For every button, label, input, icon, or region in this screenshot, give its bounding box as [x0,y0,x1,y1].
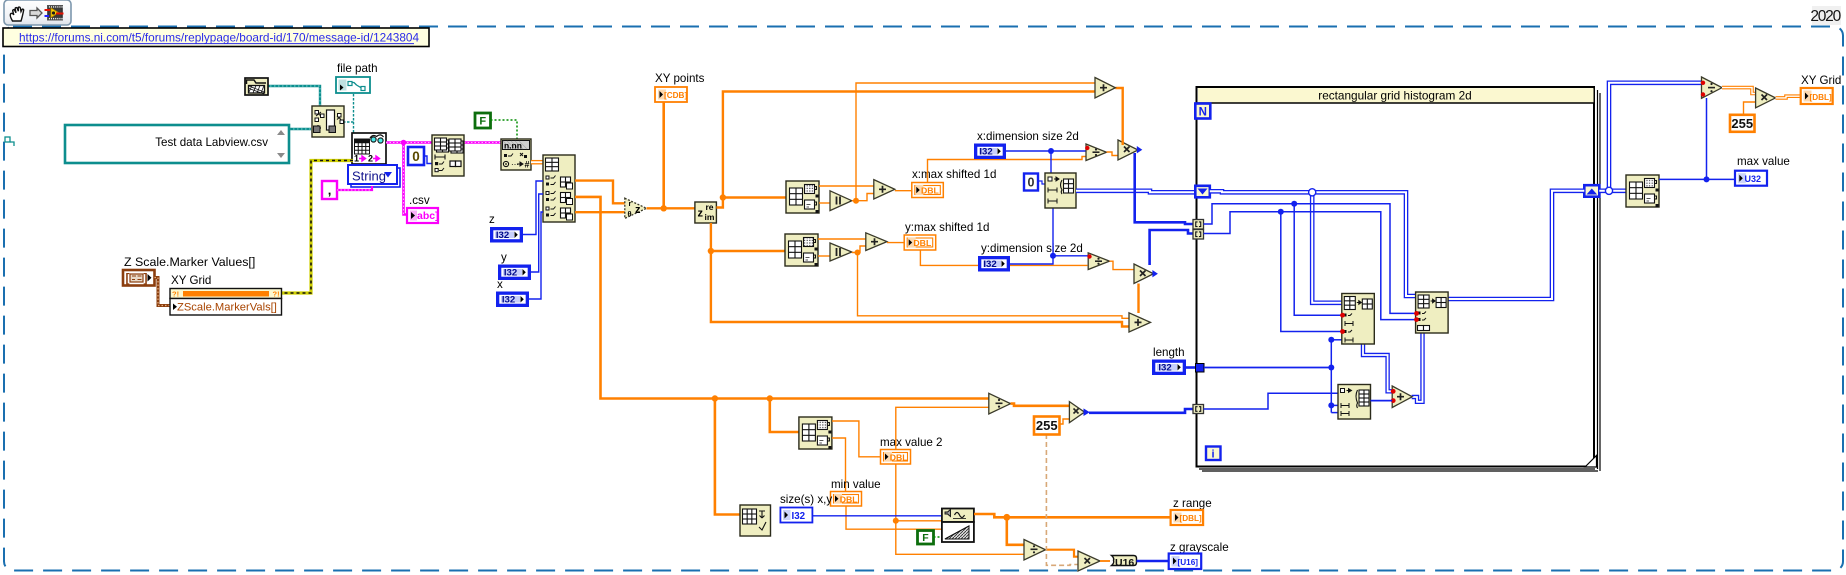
tunnel1 wire to icons A and B (index x) [1204,204,1416,314]
plus out up into icon B bottom [1412,333,1423,402]
length vertical distribution [1330,340,1332,413]
icon B: replace array subset 2 [1416,292,1449,333]
svg-text:I32: I32 [983,259,996,270]
icon A: replace array subset [1342,294,1375,345]
svg-text:file path: file path [337,62,378,75]
multiply (right) triangle [1756,88,1776,108]
wire: 255 to multiply [1060,419,1070,424]
svg-text:I32: I32 [502,295,515,306]
F false constant (top) [475,113,491,128]
main 2d wire: shift register to icon B with branch [1210,191,1416,296]
svg-text:?!: ?! [273,290,280,299]
complex to re/im node [695,202,717,223]
svg-text:DBL: DBL [890,452,909,462]
length tunnel (solid square) [1196,364,1205,373]
wire: junction down to array max-min 2 [770,399,799,433]
svg-text:rectangular grid histogram 2d: rectangular grid histogram 2d [1318,89,1471,103]
wire: x min out to abs [819,202,830,204]
pink branch down to .csv constant [404,143,408,215]
svg-text:i: i [1211,449,1214,461]
folder constant icon [245,78,268,95]
wire: polar out to junction, complex-to-reim [647,207,695,209]
size(s) I32 indicator [780,508,812,523]
wire: abs y to add with junction down [852,246,866,253]
svg-text:abc]: abc] [417,210,439,222]
wire: top add output down into multiply x [1115,88,1122,145]
svg-text:XY points: XY points [655,72,705,85]
build path icon [312,106,344,137]
min value DBL indicator [831,492,862,507]
length wire inside loop [1204,367,1331,369]
matrix size icon [740,505,771,536]
svg-text:0: 0 [1028,176,1035,190]
fract/exp string to number icon [501,139,531,170]
svg-text:I32: I32 [496,230,509,241]
wire: divide y to multiply y [1110,261,1135,269]
svg-text:θ: θ [628,210,632,219]
svg-text:U16: U16 [1115,557,1134,569]
wire: min value down to ramp bottom input [846,506,942,529]
wire: junction down to matrix size [715,399,740,515]
right shift register [1584,185,1599,197]
top add triangle [1095,78,1115,99]
wire: re junction to x array max-min [723,196,786,198]
comma string constant [322,181,337,199]
wire: im output down (1d array) [711,223,1129,327]
wire: multiply to U16 conversion [1100,560,1110,562]
2020 version tag [1812,6,1841,25]
index array icon [543,155,575,222]
wire: y:max terminal down to y:dimension control and divide [920,250,1087,265]
file path indicator [336,77,370,93]
z range DBL array indicator [1171,510,1204,525]
svg-text:[U16]: [U16] [1178,558,1199,567]
2d blue wire: initialize array to loop shift register [1076,191,1195,193]
cluster array constant [123,270,155,286]
svg-text:[CDB]: [CDB] [664,91,687,100]
svg-text:size(s) x,y: size(s) x,y [780,493,832,506]
multiply y triangle [1134,264,1154,284]
2d wire out of loop to the right with junction [1599,189,1626,194]
y:max shifted 1d DBL indicator [904,235,936,250]
max value U32 indicator [1735,171,1767,186]
svg-text:x: x [497,278,503,291]
add y triangle [866,233,887,251]
initialize array icon [1045,173,1076,208]
tunnel3 wire to icon C [1204,393,1339,409]
svg-text:z: z [635,204,641,216]
wire: x:max terminal up to divide [928,157,1087,183]
array max-min 2 icon [799,417,832,449]
path constant: Test data Labview.csv [65,125,289,163]
svg-text:ZScale.MarkerVals[]: ZScale.MarkerVals[] [177,302,277,314]
svg-text:Z Scale.Marker Values[]: Z Scale.Marker Values[] [124,255,255,269]
svg-text:z range: z range [1173,497,1212,510]
green dotted wire to ramp node [934,536,942,538]
index array outputs: row1 to polar-to-complex [575,181,625,204]
wire: 0 to initialize array [1038,181,1045,184]
svg-text:[: [ [126,271,130,285]
retain-values arrow icon [30,8,42,18]
wire: max out to max value 2 [832,421,881,457]
wire: length to loop tunnel [1186,366,1195,369]
wire: y control to index array [531,194,543,272]
svg-text:n.nn: n.nn [504,141,522,151]
svg-text:DBL: DBL [840,494,859,504]
svg-text:im: im [705,212,715,222]
divide (XY/255) triangle [989,393,1011,414]
long 1d wire junction dots [712,395,718,401]
wire: add x to DBL [895,190,912,192]
svg-text:DBL: DBL [913,238,932,248]
svg-text:max value: max value [1737,155,1790,168]
icon A bottom out to plus [1363,344,1392,391]
wire: divide to multiply (thick) [1011,404,1070,406]
svg-text:x:dimension size 2d: x:dimension size 2d [977,130,1079,143]
svg-text:,: , [328,183,332,198]
y:dimension I32 control [978,256,1010,272]
pink wire across to string-to-number [464,141,501,144]
svg-text:z: z [489,213,495,226]
wire: ramp output to z range junction [974,514,1171,517]
svg-text:?!: ?! [172,290,179,299]
XY Grid DBL array indicator [1801,88,1833,104]
svg-text:2020: 2020 [1810,8,1841,25]
wire: divide to multiply (thin double orange) [1722,88,1756,94]
row3 straight to polar-to-complex theta [575,211,625,213]
svg-text:.csv: .csv [409,194,430,207]
svg-text:re: re [706,202,714,212]
wire: max out to junction, max value and divide [1659,178,1735,180]
wire: folder to build path (teal) [266,86,320,107]
N loop count box [1195,104,1210,119]
icon C: index array (interior) [1338,385,1371,420]
y array max-min icon [785,234,818,266]
icon C out to plus [1371,400,1393,402]
svg-text:z grayscale: z grayscale [1170,541,1229,554]
wire: size to intensity graph node (blue) [812,515,942,517]
U16 conversion bubble [1112,556,1137,570]
svg-text:[DBL]: [DBL] [1180,514,1203,523]
hand tool icon [10,7,23,21]
svg-text:min value: min value [831,478,881,491]
tunnel2 wire to icons A and B (index y) [1204,212,1416,320]
wire: U16 to z grayscale (blue) [1137,560,1169,563]
bottom-right add triangle (x+y) [1129,313,1151,332]
tunnel [] 1 [1193,220,1204,230]
quick scale / ramp icon [942,509,974,543]
wire: max value 2 up to divide (thin) [896,407,989,449]
bottom divide triangle [1024,540,1046,561]
multiply y output diamond and blue wire up to tunnel2 [1152,270,1158,277]
divide x-row triangle [1086,144,1107,161]
path constant corner glyph [5,137,14,146]
svg-text:String: String [352,169,386,184]
255 dashed wire to bottom multiply [1046,434,1078,565]
branch up to divide [1609,83,1702,191]
frame dog-ear corner [1585,456,1597,468]
delete from array icon [432,135,464,176]
branch down to icon A [1312,192,1342,302]
wire: y min out to abs [818,255,830,257]
wire: im junction to y array max-min [711,250,785,252]
multiply x output diamond and blue wire to tunnel [1137,146,1143,153]
svg-text:XY Grid: XY Grid [171,274,211,287]
i iteration box [1206,447,1221,461]
plus triangle (interior) [1392,386,1412,408]
.csv abc string constant [407,208,439,223]
branch down to icon A input2 [1294,204,1342,316]
tunnel [] 2 [1193,230,1204,240]
svg-text:I32: I32 [504,268,517,279]
branch down to icon A input3 [1281,212,1342,332]
wire: y dim right and up junction to divide and initialize array [1010,256,1088,264]
svg-text:255: 255 [1731,116,1753,131]
wire: comma to read node (pink) [337,186,372,190]
svg-text:y:dimension size 2d: y:dimension size 2d [981,242,1083,255]
wire: y max out to add [818,238,866,240]
read delimited spreadsheet icon [352,133,386,164]
for loop frame [1197,87,1601,471]
wire: min out down to min value [832,438,846,492]
wire: path constant to build path (teal) [289,128,311,130]
svg-text:I32: I32 [1158,363,1171,374]
svg-text:length: length [1153,346,1185,359]
svg-text:0: 0 [412,149,420,164]
0 constant (initialize array) [1024,174,1038,191]
x:dimension I32 control [974,144,1006,160]
svg-text:r: r [629,199,632,208]
svg-text:x:max shifted 1d: x:max shifted 1d [912,168,996,181]
svg-text:255: 255 [1036,418,1058,433]
String ring constant [348,165,400,187]
polar to complex triangle [625,198,647,218]
2d-array orange wire: string-to-number to index array [531,160,543,165]
yellow-black wire: read spreadsheet to property node [282,161,353,294]
wire: x max out to add [819,185,874,187]
brown cluster wire to property node [155,278,171,306]
wire: build path to file path indicator [343,93,354,122]
z grayscale U16 indicator [1169,554,1202,570]
x array max-min icon [786,181,819,213]
svg-text:z: z [698,208,704,220]
highlight-execution VI icon [48,6,63,21]
wire: junction up to XY points [662,102,665,208]
wire: bottom divide to bottom multiply [1046,550,1079,557]
svg-text:U32: U32 [1745,174,1762,184]
wire: x dim to divide and down to initialize array [1006,148,1087,151]
x:max shifted 1d DBL indicator [912,183,944,198]
bottom multiply triangle [1078,551,1100,571]
svg-text:[DBL]: [DBL] [1810,93,1833,102]
tunnel [] 3 [1193,405,1204,414]
svg-text:XY Grid: XY Grid [1801,74,1841,87]
wire: bottom add up into multiply y [1137,284,1139,314]
add x triangle [874,180,895,199]
svg-text:F: F [922,532,929,544]
max value 2 DBL indicator [881,450,911,465]
svg-text:I32: I32 [792,511,806,522]
svg-text:F: F [479,115,486,127]
wire: add y to DBL [887,242,904,244]
svg-text:2: 2 [368,154,373,164]
svg-text:y:max shifted 1d: y:max shifted 1d [905,221,989,234]
multiply-to-blue triangle [1069,402,1084,423]
long 1d wire continue to divide [715,397,989,400]
hyperlink label box [3,28,429,47]
wire: z control to index array [523,181,543,235]
svg-text:#: # [525,160,530,170]
svg-text:N: N [1199,107,1207,119]
svg-text:]: ] [144,271,148,285]
wire: max value 2 down junction to ramp and bottom divide [896,464,1024,554]
wire: 0 to delete-from-array [424,156,432,164]
wire: multiply to XY Grid (double orange) [1776,96,1801,98]
array max-min 3 icon (right) [1626,175,1659,207]
row2 long wire down to bottom section [575,197,715,399]
multiply x triangle [1118,140,1138,160]
frame header band [1198,88,1594,102]
left shift register [1195,186,1210,198]
XY Grid property node [170,289,282,316]
divide (right) triangle [1702,77,1723,98]
svg-text:Test data Labview.csv: Test data Labview.csv [155,136,268,149]
F false constant (bottom) [918,531,934,545]
0 constant [408,147,424,165]
svg-text:https://forums.ni.com/t5/forum: https://forums.ni.com/t5/forums/replypag… [19,31,419,45]
wire: re output up and right (1d array) [716,92,1095,208]
svg-text:1: 1 [354,154,359,164]
divide y-row triangle [1088,253,1109,270]
blue wire to [] tunnel [1089,409,1193,413]
absolute value x triangle [830,191,852,211]
svg-text:max value 2: max value 2 [880,436,943,449]
wire: x control to index array [529,212,543,299]
svg-text:y: y [501,251,507,264]
XY points CDB indicator [655,87,687,102]
wire: divide x to multiply x [1107,152,1119,156]
green dotted wire F to string-to-number [491,120,518,139]
wire: junction down to bottom divide [1007,517,1024,545]
wire: 255 up to multiply [1744,102,1756,115]
icon B out to right shift register [1447,191,1584,299]
255 constant (right) [1730,115,1755,132]
pink wire read-spreadsheet to delete-from-array [386,141,432,144]
svg-text:DBL: DBL [921,186,940,196]
svg-text:I32: I32 [979,147,992,158]
wire: build path down to read spreadsheet [353,122,355,140]
255 constant (bottom) [1034,417,1060,435]
absolute value y triangle [830,243,852,261]
wire: abs x to add with junction up to top add [852,194,874,201]
length I32 control [1152,360,1186,376]
